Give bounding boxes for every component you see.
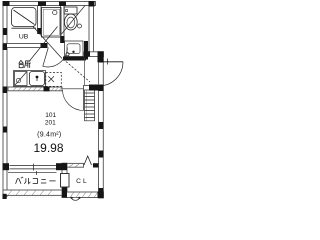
kitchen sink xyxy=(30,72,45,86)
window to balcony xyxy=(8,164,57,175)
water heater box on CL wall xyxy=(61,174,70,188)
pillar bath bottom wall right end xyxy=(41,43,48,48)
pillar right wall y123 xyxy=(99,122,104,129)
wall top outer xyxy=(3,2,96,6)
washing machine space xyxy=(42,8,62,38)
pillar jog wall left end xyxy=(84,51,90,56)
wall washer toilet divider xyxy=(61,6,65,43)
wall room door right segment xyxy=(84,86,99,91)
pillar CL top wall left xyxy=(62,163,67,169)
svg-text:19.98: 19.98 xyxy=(33,141,63,155)
dashed diagonal (overhead) xyxy=(63,59,90,82)
kitchen counter outline xyxy=(14,71,46,87)
pillar left wall bath bottom junction xyxy=(3,44,8,51)
kitchen label xyxy=(19,60,31,68)
svg-text:101: 101 xyxy=(45,112,56,119)
refrigerator dashed box xyxy=(46,72,62,86)
wall bath bottom xyxy=(3,44,47,48)
pillar kitchen wall at fridge xyxy=(44,87,50,92)
washbasin niche bottom wall xyxy=(63,57,86,61)
balcony rail bottom xyxy=(3,190,62,195)
bath hall door arc xyxy=(43,48,68,67)
pillar entrance door top jamb xyxy=(98,51,104,62)
entrance opening frame line xyxy=(98,62,100,85)
wall CL left xyxy=(62,163,67,197)
pillar window right block xyxy=(56,163,67,170)
wall toilet right xyxy=(89,2,94,53)
CL folding door xyxy=(84,156,92,165)
wall hatch kitchen xyxy=(13,87,62,91)
wall CL bottom xyxy=(62,192,104,198)
pillar left wall y127 xyxy=(3,127,7,133)
niche right black wall xyxy=(84,41,88,60)
pillar top wall at bath/washer junction xyxy=(38,2,46,7)
svg-text:(9.4m²): (9.4m²) xyxy=(37,132,61,139)
pillar entrance door bottom jamb xyxy=(99,85,104,92)
balcony rail hatch xyxy=(8,190,52,195)
wall kitchen room xyxy=(8,87,62,91)
pillar top-left corner xyxy=(3,1,10,6)
entrance door leaf xyxy=(100,59,124,86)
wall entrance right xyxy=(99,57,104,198)
toilet xyxy=(62,6,86,35)
CL top wall hatch xyxy=(69,164,80,167)
wall bath right xyxy=(38,6,42,34)
pillar genkan wall corner xyxy=(92,85,99,91)
pillar left wall window corner xyxy=(3,163,10,170)
wall left outer xyxy=(3,2,7,197)
CL bottom wall hatch xyxy=(70,192,98,198)
stove xyxy=(15,72,28,86)
pillar washer/toilet wall bottom xyxy=(61,36,65,43)
pillar left wall balcony bottom corner xyxy=(3,194,7,199)
svg-text:201: 201 xyxy=(45,120,56,127)
wall jog entrance top xyxy=(84,52,104,57)
pillar right wall y151 xyxy=(99,151,104,158)
pillar CL bottom right corner xyxy=(98,192,104,199)
pillar ladder top xyxy=(89,85,99,91)
pillar left wall y28 xyxy=(3,28,7,35)
pillar CL left wall bottom xyxy=(62,187,67,198)
pillar CL top wall right end xyxy=(93,163,99,167)
washbasin in niche xyxy=(65,41,84,57)
room door (opening to main room) xyxy=(63,89,84,111)
pillar right wall y188 xyxy=(99,188,104,195)
loft ladder xyxy=(85,91,95,122)
big X diagonals (washer pan marking) xyxy=(29,27,62,62)
balcony label xyxy=(16,177,56,184)
bump below CL wall xyxy=(71,197,81,201)
pillar top-right corner xyxy=(89,1,95,7)
genkan step line xyxy=(83,58,85,85)
wall CL top xyxy=(67,163,84,167)
svg-text:CL: CL xyxy=(76,178,89,185)
pillar top wall at washer/toilet junction xyxy=(59,2,66,7)
svg-text:UB: UB xyxy=(19,33,29,40)
bathtub xyxy=(12,8,37,29)
pillar bath right wall bottom xyxy=(38,28,42,34)
pillar left wall kitchen junction xyxy=(3,87,8,94)
